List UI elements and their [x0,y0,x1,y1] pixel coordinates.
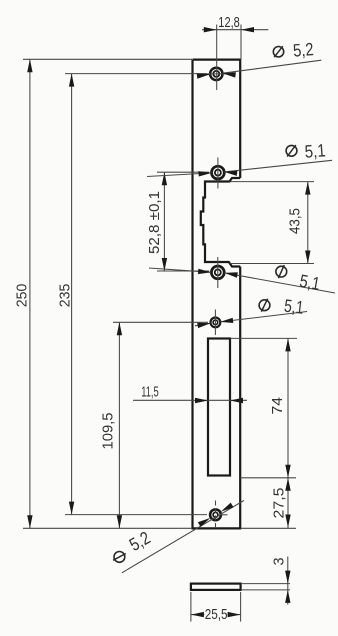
svg-text:235: 235 [57,284,73,308]
svg-text:5,1: 5,1 [283,296,305,318]
svg-text:3: 3 [271,558,287,566]
svg-text:5,2: 5,2 [292,39,314,61]
svg-text:74: 74 [270,397,286,415]
svg-text:52,8 ±0,1: 52,8 ±0,1 [147,191,163,254]
svg-text:109,5: 109,5 [101,413,117,450]
svg-text:11,5: 11,5 [141,383,159,400]
svg-text:12,8: 12,8 [218,15,240,31]
svg-text:43,5: 43,5 [288,208,304,234]
svg-text:5,1: 5,1 [304,140,326,161]
svg-text:250: 250 [15,284,31,308]
svg-text:5,1: 5,1 [298,271,322,294]
svg-text:25,5: 25,5 [205,606,228,623]
svg-text:27,5: 27,5 [272,488,288,519]
